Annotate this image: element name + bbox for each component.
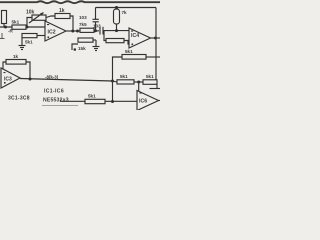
- svg-text:IC3: IC3: [4, 77, 12, 83]
- svg-text:5k1: 5k1: [25, 40, 33, 45]
- svg-text:3C1-3C8: 3C1-3C8: [8, 96, 30, 102]
- svg-text:5k1: 5k1: [125, 49, 133, 54]
- svg-text:-R: -R: [8, 29, 14, 34]
- svg-text:NE5532×3: NE5532×3: [43, 98, 69, 104]
- svg-text:5k1: 5k1: [120, 74, 128, 79]
- svg-text:103: 103: [79, 15, 87, 20]
- svg-text:103: 103: [93, 24, 101, 29]
- svg-text:1k: 1k: [13, 54, 19, 59]
- svg-text:IC1-IC6: IC1-IC6: [44, 89, 64, 95]
- svg-text:10k: 10k: [26, 10, 35, 16]
- svg-text:IC2: IC2: [48, 30, 56, 36]
- svg-text:15k: 15k: [78, 46, 86, 51]
- svg-text:1k: 1k: [59, 8, 65, 14]
- svg-text:IC6: IC6: [139, 99, 147, 105]
- svg-text:5k1: 5k1: [88, 94, 96, 99]
- svg-text:5k1: 5k1: [146, 74, 154, 79]
- svg-text:7k5: 7k5: [79, 22, 87, 27]
- svg-text:7k: 7k: [122, 10, 128, 15]
- svg-text:-8(k-3): -8(k-3): [45, 75, 59, 80]
- svg-text:5k1: 5k1: [12, 20, 20, 25]
- svg-text:IC4: IC4: [131, 33, 139, 39]
